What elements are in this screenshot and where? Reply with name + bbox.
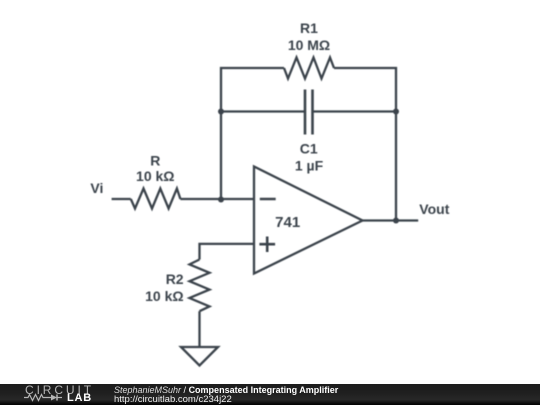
wire R to op-amp inverting input [180, 198, 254, 200]
op-amp U1 741 triangle [254, 167, 363, 274]
CircuitLab logo text CIRCUIT [25, 384, 94, 396]
resistor R2 [190, 260, 210, 312]
node junction dot inverting input [218, 197, 224, 203]
CircuitLab logo glyph (resistor + diode) [24, 393, 66, 402]
svg-text:R: R [150, 153, 160, 169]
svg-text:10 kΩ: 10 kΩ [136, 168, 174, 184]
capacitor C1 [305, 90, 313, 135]
svg-text:Vout: Vout [419, 201, 449, 217]
credit line 1 [114, 386, 338, 395]
footer bar [0, 384, 540, 405]
svg-text:10 kΩ: 10 kΩ [145, 288, 183, 304]
node junction dot left C1 rail [218, 109, 224, 115]
node junction dot output [393, 218, 399, 224]
ground [181, 347, 218, 366]
svg-text:1 µF: 1 µF [295, 158, 324, 174]
svg-text:R1: R1 [300, 20, 318, 36]
svg-text:C1: C1 [300, 141, 318, 157]
credit line 2 [114, 395, 232, 405]
wire op-amp output to Vout [363, 219, 419, 221]
wire op-amp non-inverting input to R2 [200, 244, 255, 260]
op-amp minus sign [260, 198, 276, 201]
svg-text:R2: R2 [166, 271, 184, 287]
wire C1 rail left [221, 110, 305, 112]
svg-text:741: 741 [275, 214, 300, 231]
wire top rail right segment [334, 68, 396, 221]
svg-text:10 MΩ: 10 MΩ [288, 37, 330, 53]
op-amp plus sign [259, 237, 275, 253]
wire top rail left segment [221, 68, 284, 200]
wire Vi to resistor R [112, 198, 131, 200]
wire C1 rail right [313, 110, 397, 112]
svg-text:Vi: Vi [90, 180, 103, 196]
wire R2 to ground [198, 311, 200, 347]
resistor R [131, 189, 181, 209]
node junction dot right C1 rail [393, 109, 399, 115]
CircuitLab logo text LAB [67, 393, 92, 404]
resistor R1 [284, 58, 334, 79]
